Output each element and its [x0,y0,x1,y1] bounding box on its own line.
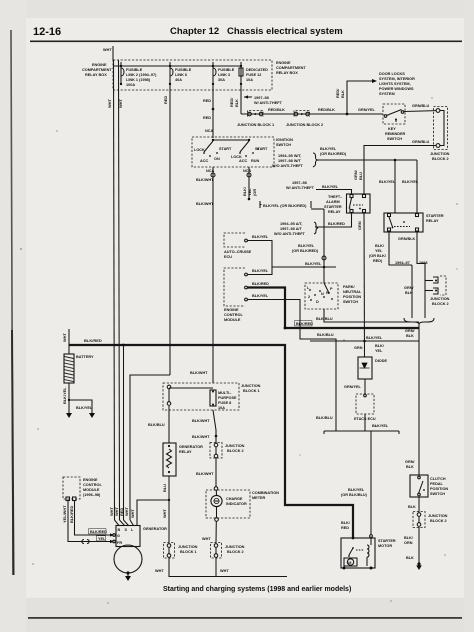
svg-text:BLK/WHT: BLK/WHT [196,202,214,206]
wire BLU generator relay output [130,476,170,543]
svg-text:SWITCH: SWITCH [430,492,445,496]
svg-text:WHT: WHT [107,99,112,108]
svg-text:BLK: BLK [406,465,414,469]
svg-text:Chapter 12 Chassis electrica: Chapter 12 Chassis electrical system [170,26,343,37]
wire BLK/WHT to charge indicator [196,458,218,518]
svg-text:BLK: BLK [406,334,414,338]
svg-text:WHT: WHT [130,509,135,518]
svg-text:BLK: BLK [408,505,416,509]
key reminder switch (dashed box) [383,104,405,124]
svg-text:JUNCTION: JUNCTION [241,384,261,388]
label ENGINE COMPARTMENT RELAY BOX left [82,63,112,77]
svg-text:NCA: NCA [205,129,213,133]
starter relay U2 [384,213,423,232]
svg-text:BLK/YEL: BLK/YEL [62,387,67,404]
svg-text:RELAY: RELAY [328,210,341,214]
svg-text:GRN: GRN [354,346,363,350]
svg-text:WHT: WHT [155,569,164,573]
svg-text:WHT: WHT [62,333,67,342]
svg-text:GRN/: GRN/ [404,286,414,290]
svg-text:BLK/YEL: BLK/YEL [76,406,93,410]
svg-text:CONTROL: CONTROL [224,313,243,317]
svg-text:YEL: YEL [375,349,383,353]
svg-text:MOTOR: MOTOR [378,544,392,548]
header rule [30,41,462,43]
svg-text:JUNCTION: JUNCTION [430,297,450,301]
svg-text:ENGINE: ENGINE [92,63,107,67]
svg-text:SYSTEM, INTERIOR: SYSTEM, INTERIOR [379,77,415,81]
svg-text:ENGINE: ENGINE [83,478,98,482]
wire ignition internal bus [212,139,250,141]
svg-text:BLK/BLU: BLK/BLU [316,416,333,420]
label BLK/RED at starter motor [341,521,351,530]
wire RED/BLK from dedicated fuse down [229,84,241,114]
svg-text:BLK/YEL: BLK/YEL [402,180,419,184]
svg-text:BLK/WHT: BLK/WHT [196,472,214,476]
svg-text:BLK/YEL: BLK/YEL [366,336,383,340]
label THEFT-ALARM STARTER RELAY [324,195,342,214]
label GENERATOR RELAY [179,445,203,454]
svg-text:BLK/YEL: BLK/YEL [322,185,339,189]
ignition switch (dashed box) [192,137,274,167]
junction block 2 connector above charge indicator [210,443,245,459]
svg-text:WHT: WHT [124,507,129,516]
svg-text:BLOCK 1: BLOCK 1 [243,389,260,393]
svg-text:RED: RED [203,116,211,120]
label BLK/WHT above junction block 1 [190,371,208,375]
svg-text:LOCK: LOCK [194,148,205,152]
wire BLK/YEL ECM pin3 staircase [248,294,337,431]
bracket gathering starter motor feeds [324,431,399,435]
label JUNCTION BLOCK 2 top [286,123,323,127]
svg-text:BLK/BLU: BLK/BLU [148,423,165,427]
svg-text:2: 2 [308,295,310,299]
svg-text:BLK/YEL: BLK/YEL [320,147,337,151]
svg-text:(OR BLK/: (OR BLK/ [369,254,387,258]
svg-text:BLOCK 2: BLOCK 2 [227,550,244,554]
left page binding edge line [11,30,14,575]
svg-text:JUNCTION BLOCK 2: JUNCTION BLOCK 2 [286,123,323,127]
svg-text:WHT: WHT [162,509,167,518]
wire GRN/BLU key switch to junction block 2 [404,104,436,112]
label 1994-97 / 1998 split [389,261,427,267]
svg-text:ENGINE: ENGINE [224,308,239,312]
multi-purpose fuse 8 [210,390,237,410]
label BLK/YEL (OR BLK/RED) right mid [292,244,319,253]
svg-text:GRN/YEL: GRN/YEL [358,108,376,112]
scan noise specks [20,97,458,603]
svg-text:MODULE: MODULE [224,318,241,322]
svg-text:BLOCK 2: BLOCK 2 [432,302,449,306]
svg-text:ACC: ACC [200,159,208,163]
svg-text:BLK/RED: BLK/RED [90,530,107,534]
svg-text:MODULE: MODULE [83,488,100,492]
combination meter (dashed box) [206,490,279,518]
svg-text:BLK/WHT: BLK/WHT [196,178,214,182]
svg-text:BLK: BLK [405,291,413,295]
svg-text:1997–98 A/T: 1997–98 A/T [280,227,302,231]
label BLK/YEL vertical near diode [375,344,385,353]
fusible link 3 symbol [212,62,216,85]
wire WHT battery stub [62,329,69,345]
svg-text:ECU: ECU [224,255,232,259]
svg-text:BLK/YEL: BLK/YEL [298,244,315,248]
wire GRN/BLK merged down to clutch switch [405,324,419,475]
svg-text:GRN/: GRN/ [405,460,415,464]
svg-text:BLOCK 1: BLOCK 1 [180,550,197,554]
wire WHT below meter [202,518,218,543]
svg-text:40A: 40A [175,78,182,82]
svg-text:POSITION: POSITION [343,295,361,299]
svg-text:1997–98 W/T: 1997–98 W/T [278,159,301,163]
label 1997-98 W/ ANTI-THEFT mid [286,181,315,190]
svg-text:BLK/RED: BLK/RED [84,338,102,343]
svg-text:1994–97: 1994–97 [395,261,410,265]
svg-text:LINK 1 (1998): LINK 1 (1998) [126,78,151,82]
wire BLK/YEL horizontal to GRN/BLK column [310,336,419,342]
wire trunk bends into generator pins [109,344,134,526]
wire GRN/BLK pair from starter relay [389,232,417,262]
svg-text:LIGHTS SYSTEM,: LIGHTS SYSTEM, [379,82,411,86]
label JUNCTION BLOCK 2 mid right [430,297,450,306]
label 1994-95 A/T group [274,222,318,236]
svg-text:FR: FR [117,541,122,545]
wire GRN/BLU from junction block 2 down-left [353,140,436,194]
svg-text:GRN/BLU: GRN/BLU [412,140,430,144]
svg-text:SWITCH: SWITCH [387,137,402,141]
svg-text:START: START [255,147,268,151]
svg-text:LINK 6: LINK 6 [175,73,187,77]
label BLK/YEL (OR BLK/RED) right of brace [320,147,347,156]
wire BLK/YEL ECM pin1 [248,267,273,275]
label CLUTCH PEDAL POSITION SWITCH [430,477,448,496]
svg-text:100A: 100A [126,83,135,87]
svg-text:POWER WINDOWS: POWER WINDOWS [379,87,414,91]
diode D1 [358,357,387,394]
wire BLK/RED from theft-alarm relay [315,213,352,227]
svg-text:Starting and charging systems: Starting and charging systems (1998 and … [163,586,351,593]
wire feed bus inside relay box [113,65,241,67]
park/neutral position switch (dashed box) [305,283,338,309]
svg-text:BLU: BLU [162,484,167,492]
svg-text:1997–98: 1997–98 [292,181,307,185]
svg-text:FUSIBLE: FUSIBLE [126,68,143,72]
ground battery second [89,408,95,418]
svg-text:BLK/YEL: BLK/YEL [379,180,396,184]
svg-text:BATTERY: BATTERY [76,355,94,359]
label IGNITION SWITCH [276,138,293,147]
svg-text:BLK/BLU: BLK/BLU [317,333,334,337]
svg-text:BLK/YEL: BLK/YEL [252,269,269,273]
svg-text:10A: 10A [246,78,253,82]
node GRN/BLK merge brace [404,318,434,324]
dedicated fuse 12 symbol [239,62,243,85]
ETACS ECU (dashed box) [354,394,376,421]
wire NCA ignition output right BLK/YEL [242,167,257,200]
svg-text:RELAY BOX: RELAY BOX [85,73,107,77]
svg-text:COMPARTMENT: COMPARTMENT [276,66,306,70]
svg-text:BLK/RED: BLK/RED [252,282,269,286]
starter motor box [341,535,375,568]
svg-text:REMINDER: REMINDER [385,132,406,136]
wire BLK/YEL (OR BLK/BLU) long drop to starter motor [341,435,371,535]
svg-text:CLUTCH: CLUTCH [430,477,446,481]
svg-text:RED): RED) [373,259,383,263]
svg-text:BLK/YEL (OR BLK/RED): BLK/YEL (OR BLK/RED) [263,204,307,208]
svg-text:ALARM: ALARM [326,200,340,204]
generator relay [163,443,176,476]
svg-text:M: M [348,561,351,565]
svg-text:BLK/YEL: BLK/YEL [305,262,322,266]
svg-text:12-16: 12-16 [33,26,61,38]
label BLK/YEL (OR BLK/RED) bracket [260,201,311,208]
wire RED from fusible link 6 [163,84,170,375]
svg-text:BLK: BLK [406,556,414,560]
svg-text:NCA: NCA [206,169,214,173]
svg-text:1994–95 A/T,: 1994–95 A/T, [280,222,302,226]
label GRN/YEL [358,108,376,112]
ignition switch contacts right group [231,141,268,163]
svg-text:JUNCTION: JUNCTION [225,545,245,549]
node junction dot door-locks branch [346,113,349,116]
svg-text:BLOCK 2: BLOCK 2 [432,157,449,161]
wire BLK below clutch switch [408,497,419,512]
svg-text:COMPARTMENT: COMPARTMENT [82,68,112,72]
svg-text:THEFT–: THEFT– [328,195,342,199]
svg-text:RED: RED [163,96,168,104]
svg-text:AUTO–CRUISE: AUTO–CRUISE [224,250,252,254]
svg-text:JUNCTION: JUNCTION [428,514,448,518]
svg-text:RED/BLK: RED/BLK [268,108,285,112]
bottom rule [28,617,462,619]
svg-text:B: B [118,528,121,532]
label FUSIBLE LINK 6 [175,68,192,82]
svg-text:BLK/: BLK/ [375,244,385,248]
wire BLK/YEL feed to starter relay columns [318,159,419,213]
svg-text:WHT: WHT [103,48,112,52]
svg-text:SWITCH: SWITCH [276,143,291,147]
wire GRN/BLK 1998 branch via junction block 2 [425,267,433,319]
junction block 2 inline connector [294,111,310,117]
svg-text:BLK/WHT: BLK/WHT [192,435,210,439]
svg-text:1997–98: 1997–98 [254,96,269,100]
svg-text:NCA: NCA [243,169,251,173]
svg-text:NEUTRAL: NEUTRAL [343,290,362,294]
svg-text:GENERATOR: GENERATOR [143,527,167,531]
label 1997-98 W/ ANTI-THEFT with arrow [244,95,283,105]
svg-text:W/ ANTI-THEFT: W/ ANTI-THEFT [286,186,315,190]
label ENGINE COMPARTMENT RELAY BOX right [276,61,306,75]
svg-text:DIODE: DIODE [375,359,387,363]
wire BLK/YEL from ETACS to bracket [365,414,389,431]
svg-text:BLK/BLU: BLK/BLU [316,317,333,321]
wire YEL/WHT ECM to generator FR [62,500,114,544]
svg-text:GRN/: GRN/ [405,329,415,333]
svg-text:BLK: BLK [340,90,345,98]
svg-text:YEL/WHT: YEL/WHT [62,505,67,523]
wire NCA ignition output left [196,167,215,383]
junction block 2 connector clutch branch [413,512,448,528]
fusible link 1/2 symbol [120,62,124,85]
svg-text:PEDAL: PEDAL [430,482,444,486]
svg-text:DOOR LOCKS: DOOR LOCKS [379,72,405,76]
svg-text:BLK/RED: BLK/RED [296,322,313,326]
wire GRN from theft-alarm relay down to diode [354,213,365,357]
wire BLK/ORN [404,527,419,563]
svg-text:PURPOSE: PURPOSE [218,396,237,400]
svg-text:WHT: WHT [220,569,229,573]
engine compartment relay box (dashed) [113,60,272,90]
svg-text:SYSTEM: SYSTEM [379,92,395,96]
svg-text:BLK/: BLK/ [375,344,385,348]
svg-text:GENERATOR: GENERATOR [179,445,203,449]
svg-text:(OR BLK/BLU): (OR BLK/BLU) [341,493,368,497]
engine control module (dashed box) [224,268,247,306]
svg-text:BLK/: BLK/ [404,536,414,540]
svg-text:R: R [326,291,329,295]
svg-text:BLK/WHT: BLK/WHT [190,371,208,375]
auto-cruise ECU (dashed box) [224,233,247,247]
svg-text:STARTER: STARTER [324,205,342,209]
svg-text:IGNITION: IGNITION [276,138,293,142]
svg-text:FUSIBLE: FUSIBLE [175,68,192,72]
svg-text:WHT: WHT [202,537,211,541]
svg-text:BLK/: BLK/ [341,521,351,525]
svg-text:YEL: YEL [375,249,383,253]
wire RED from fusible link 3 to ignition switch [203,84,214,138]
svg-text:LINK 3: LINK 3 [218,73,230,77]
svg-text:W/O ANTI-THEFT: W/O ANTI-THEFT [272,164,304,168]
label DOOR LOCKS SYSTEM block [379,72,415,96]
svg-text:FUSIBLE: FUSIBLE [218,68,235,72]
junction block 1 inline connector [248,111,264,117]
engine control module 1996-98 (dashed box) [63,477,80,501]
svg-text:MULTI–: MULTI– [218,391,231,395]
svg-text:N: N [321,292,324,296]
wire BLK/WHT below junction block 1 [192,410,217,443]
svg-text:BLK: BLK [234,99,239,107]
junction block 2 connector bottom [211,543,245,559]
svg-text:PARK/: PARK/ [343,285,355,289]
svg-text:BLK/WHT: BLK/WHT [192,419,210,423]
label FUSIBLE LINK 2 [126,68,157,87]
charge indicator lamp [211,495,247,506]
wire BLK/YEL auto-cruise to trunk [248,235,337,268]
svg-text:BLU: BLU [358,172,363,180]
svg-text:JUNCTION: JUNCTION [225,444,245,448]
wire BLK/YEL battery negative [62,383,93,410]
svg-text:ON: ON [214,157,220,161]
svg-text:GRN/BLU: GRN/BLU [412,104,430,108]
wire BLK/RED battery feed thick [69,327,353,538]
svg-text:FUSE 12: FUSE 12 [246,73,261,77]
label AUTO-CRUISE ECU [224,250,252,259]
label STARTER MOTOR [378,539,396,548]
junction block 1 connector bottom [164,543,198,559]
label ENGINE CONTROL MODULE (1996-98) [83,478,102,497]
svg-text:BLK/YEL: BLK/YEL [372,424,389,428]
theft-alarm starter relay U1 [347,194,371,213]
svg-text:RUN: RUN [251,159,259,163]
svg-text:JUNCTION BLOCK 1: JUNCTION BLOCK 1 [237,123,274,127]
wire RED/BLK riser to door locks arrow [335,79,377,114]
svg-text:COMBINATION: COMBINATION [252,491,279,495]
svg-text:STARTER: STARTER [426,214,444,218]
svg-text:(OR: (OR [252,189,257,196]
label GRN/YEL below diode [344,385,362,389]
ground battery main [66,408,72,418]
wire GRN/BLK 1994-97 branch [404,265,414,318]
wire BLK/BLU junction block 1 to generator relay [148,406,169,443]
svg-text:RED: RED [203,99,211,103]
svg-text:STARTER: STARTER [378,539,396,543]
wire BLK/YEL to theft-alarm relay coil [316,185,352,194]
svg-text:ORN: ORN [404,541,413,545]
wire BLK/RED ECM pin2 thick staircase [248,282,420,328]
ground clutch branch [416,562,422,570]
label BLK/YEL (OR BLK/RED) stacked near starter relay [369,244,387,263]
wire WHT stub above relay box [103,46,113,60]
generator G1 [113,526,167,547]
wire WHT bottom return run [155,558,287,577]
junction block 1 lower (dashed box) [163,383,239,410]
svg-text:W/ ANTI-THEFT: W/ ANTI-THEFT [254,101,283,105]
svg-text:GRN/BLK: GRN/BLK [398,237,416,241]
svg-text:YEL: YEL [98,537,106,541]
label JUNCTION BLOCK 2 right [430,152,450,161]
wire WHT trunk B [118,60,123,520]
label PARK/NEUTRAL POSITION SWITCH [343,285,362,304]
svg-text:ENGINE: ENGINE [276,61,291,65]
label KEY REMINDER SWITCH [385,127,406,141]
junction block 2 right tall (dashed) [434,107,448,150]
wire BLK/RED ECM to generator G [69,500,114,537]
ignition switch contacts left group [194,141,232,163]
clutch pedal position switch [410,475,428,497]
svg-text:WHT: WHT [118,99,123,108]
svg-text:30A: 30A [218,78,225,82]
label STARTER RELAY [426,214,444,223]
svg-text:BLOCK 2: BLOCK 2 [227,449,244,453]
svg-text:FUSE 8: FUSE 8 [218,401,231,405]
wire RED/BLK top horizontal run [241,108,383,114]
svg-text:DEDICATED: DEDICATED [246,68,268,72]
svg-text:GRN: GRN [357,221,362,230]
fusible link 6 symbol [169,62,173,85]
svg-text:(OR BLK/RED): (OR BLK/RED) [292,249,319,253]
svg-text:RELAY: RELAY [179,450,192,454]
generator rotor circle [114,545,142,575]
junction block 2 connector right mid [433,276,446,295]
svg-text:ACC: ACC [239,159,247,163]
svg-text:BLK/YEL: BLK/YEL [252,294,269,298]
svg-text:BLK/RED: BLK/RED [328,222,345,226]
svg-text:RELAY: RELAY [426,219,439,223]
svg-text:CONTROL: CONTROL [83,483,102,487]
svg-text:(1996–98): (1996–98) [83,493,101,497]
svg-text:KEY: KEY [388,127,396,131]
label JUNCTION BLOCK 1 lower [241,384,261,393]
svg-text:CHARGE: CHARGE [226,497,243,501]
svg-text:BLOCK 2: BLOCK 2 [430,519,447,523]
svg-text:GRN/YEL: GRN/YEL [344,385,362,389]
battery B1 [64,345,94,383]
wire WHT trunk A left [107,60,115,520]
wire RED jog to generator column [130,375,170,520]
svg-text:POSITION: POSITION [430,487,448,491]
starter motor internals [343,545,373,570]
svg-text:RED: RED [341,526,349,530]
